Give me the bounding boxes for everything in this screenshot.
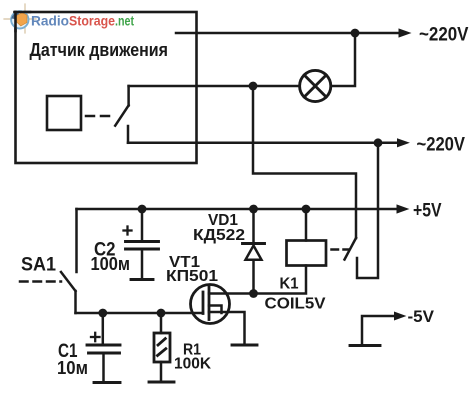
svg-text:COIL5V: COIL5V bbox=[265, 296, 327, 313]
C2 plus sign bbox=[124, 227, 132, 235]
node: junction dot 220V/lamp bbox=[351, 29, 360, 38]
node: junction dot 220V bottom bbox=[374, 138, 383, 147]
VT1 channel bar bbox=[208, 287, 211, 320]
wire +5V rail bbox=[77, 208, 398, 211]
resistor R1 top lead bbox=[160, 313, 163, 333]
node: junction dot C1 top bbox=[98, 309, 107, 318]
ground bar VT1 source bbox=[232, 344, 257, 347]
C1 plus sign bbox=[91, 333, 100, 341]
crosshair registration marks bbox=[4, 4, 36, 33]
ground bar C1 bbox=[94, 381, 120, 384]
diode VD1 triangle bbox=[246, 246, 262, 260]
capacitor C2 top lead bbox=[141, 209, 144, 242]
sensor switch blade bbox=[115, 105, 128, 125]
arrowhead ~220V top bbox=[399, 28, 412, 37]
capacitor C1 plates bbox=[87, 345, 120, 353]
resistor R1 bottom lead bbox=[160, 362, 163, 382]
motion sensor box outline bbox=[16, 12, 197, 163]
VT1 source tap and wire to ground bbox=[209, 312, 245, 345]
resistor R1 inner marks bbox=[158, 339, 166, 356]
svg-text:+5V: +5V bbox=[413, 201, 442, 222]
arrowhead +5V bbox=[397, 204, 410, 213]
svg-text:Датчик движения: Датчик движения bbox=[30, 39, 169, 60]
transistor VT1 body circle bbox=[191, 285, 230, 324]
relay contact K1.1 blade bbox=[345, 238, 357, 260]
diode VD1 top lead bbox=[252, 209, 255, 244]
node: junction dot lamp left bbox=[249, 82, 258, 91]
wire ~220V top bbox=[176, 32, 400, 35]
box corner over logo bbox=[15, 11, 31, 14]
wire ~220V bottom bbox=[128, 142, 398, 145]
logo icon bbox=[11, 11, 30, 31]
ground bar R1 bbox=[149, 381, 174, 384]
capacitor C1 top lead bbox=[102, 313, 105, 345]
VT1 gate bar bbox=[202, 292, 205, 314]
relay K1 coil top lead bbox=[305, 209, 308, 241]
node: junction dot drain/VD1/relay bbox=[249, 289, 258, 298]
wire from sensor switch to lamp node bbox=[129, 85, 253, 88]
svg-text:100м: 100м bbox=[91, 254, 131, 274]
svg-text:10м: 10м bbox=[57, 358, 88, 378]
lamp EL bbox=[300, 70, 331, 101]
node: junction dot C2 top bbox=[138, 205, 147, 214]
switch SA1 blade bbox=[61, 272, 76, 291]
wire lamp node down and across to relay contact bbox=[253, 86, 356, 238]
relay K1 dashed link bbox=[332, 248, 350, 251]
resistor R1 body bbox=[154, 333, 170, 362]
sensor switch lower stub bbox=[127, 126, 130, 143]
svg-text:~220V: ~220V bbox=[419, 24, 469, 46]
arrowhead -5V bbox=[394, 312, 406, 321]
ground bar C2 bbox=[131, 278, 153, 281]
svg-text:SA1: SA1 bbox=[21, 254, 56, 275]
-5V ground bar bbox=[350, 344, 380, 347]
svg-text:~220V: ~220V bbox=[417, 133, 466, 155]
wire gate rail (bottom) bbox=[76, 312, 204, 315]
node: junction dot relay coil top bbox=[302, 205, 311, 214]
sensor element rectangle bbox=[47, 96, 81, 130]
svg-text:100K: 100K bbox=[174, 356, 212, 373]
arrowhead ~220V bottom bbox=[397, 138, 410, 147]
relay contact lower stub and return wire bbox=[357, 143, 378, 278]
-5V wire bbox=[362, 316, 395, 346]
relay K1 coil box bbox=[287, 241, 327, 266]
node: junction dot VD1 top bbox=[249, 205, 258, 214]
sensor dashed link bbox=[86, 115, 111, 118]
sensor switch upper terminal bbox=[127, 86, 130, 105]
wire drain node to relay coil bbox=[254, 266, 307, 294]
switch SA1 upper terminal bbox=[75, 209, 78, 272]
capacitor C2 plates bbox=[126, 242, 159, 250]
svg-text:КП501: КП501 bbox=[166, 268, 218, 285]
svg-text:RadioStorage.net: RadioStorage.net bbox=[31, 13, 134, 29]
VT1 substrate tap bbox=[209, 306, 222, 314]
capacitor C2 bottom lead bbox=[141, 249, 144, 280]
capacitor C1 bottom lead bbox=[102, 353, 105, 383]
diode VD1 cathode bar bbox=[243, 242, 265, 245]
svg-text:-5V: -5V bbox=[408, 307, 435, 326]
svg-text:КД522: КД522 bbox=[193, 227, 245, 244]
switch SA1 lower terminal bbox=[74, 291, 77, 313]
diode VD1 bottom lead bbox=[252, 260, 255, 294]
wire lamp right drop bbox=[331, 33, 355, 86]
svg-text:K1: K1 bbox=[280, 275, 299, 292]
switch SA1 dashed link bbox=[20, 280, 61, 283]
wire lamp left lead bbox=[253, 85, 300, 88]
node: junction dot R1 top bbox=[157, 309, 166, 318]
VT1 drain tap and wire to node bbox=[209, 292, 253, 295]
